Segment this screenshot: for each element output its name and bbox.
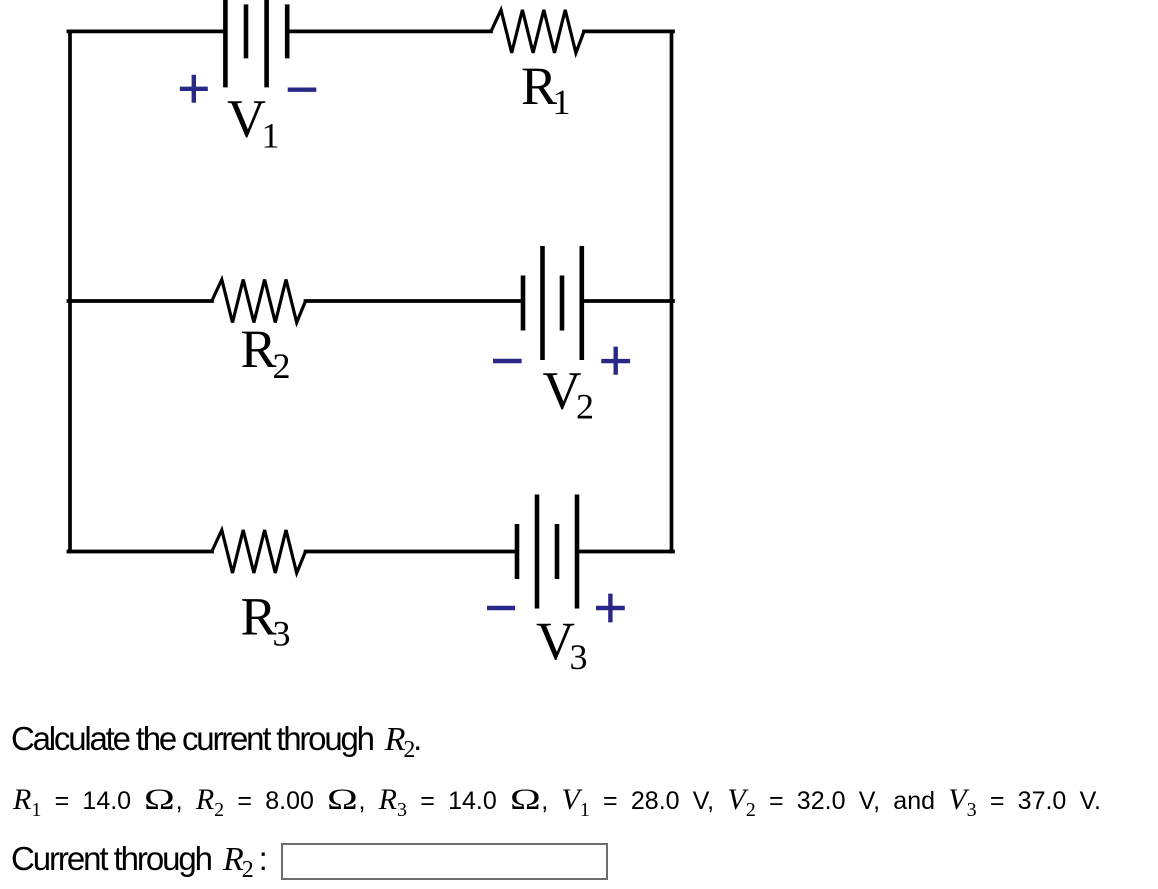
resistor R1 xyxy=(491,10,584,53)
svg-text:1: 1 xyxy=(262,116,280,156)
wire top-right xyxy=(584,30,673,34)
svg-text:V: V xyxy=(227,89,266,149)
circuit schematic xyxy=(0,0,760,710)
question line 1 xyxy=(11,720,420,769)
svg-text:R: R xyxy=(241,587,277,647)
V1 plus sign xyxy=(180,75,208,103)
V3 minus sign xyxy=(487,606,515,610)
resistor R3 xyxy=(212,530,306,573)
V3 plus sign xyxy=(596,594,625,623)
svg-text:2: 2 xyxy=(576,386,594,426)
svg-text:3: 3 xyxy=(570,637,588,677)
wire mid-left xyxy=(68,299,212,303)
wire mid-right xyxy=(582,299,673,303)
battery V2 plates (short,long,short,long) xyxy=(521,276,526,331)
answer input box xyxy=(281,843,608,881)
battery V1 plates (long,short,long,short) xyxy=(223,0,228,87)
svg-text:3: 3 xyxy=(273,614,291,654)
svg-text:1: 1 xyxy=(553,82,571,122)
V2 minus sign xyxy=(493,359,522,363)
wire bottom-left xyxy=(68,550,212,554)
wire mid-middle xyxy=(306,299,524,303)
right rail xyxy=(670,31,674,551)
left rail xyxy=(68,31,72,551)
wire top-left xyxy=(68,30,225,34)
wire bottom-middle xyxy=(306,550,518,554)
svg-text:R: R xyxy=(241,319,277,379)
battery V3 plates (short,long,short,long) xyxy=(515,524,520,579)
given values line 2 xyxy=(13,783,1101,827)
svg-text:2: 2 xyxy=(273,346,291,386)
resistor R2 xyxy=(212,280,306,323)
wire bottom-right xyxy=(577,550,673,554)
V1 minus sign xyxy=(288,87,317,91)
V2 plus sign xyxy=(601,347,630,375)
answer prompt line 3 xyxy=(11,840,266,889)
wire top-middle xyxy=(287,30,491,34)
